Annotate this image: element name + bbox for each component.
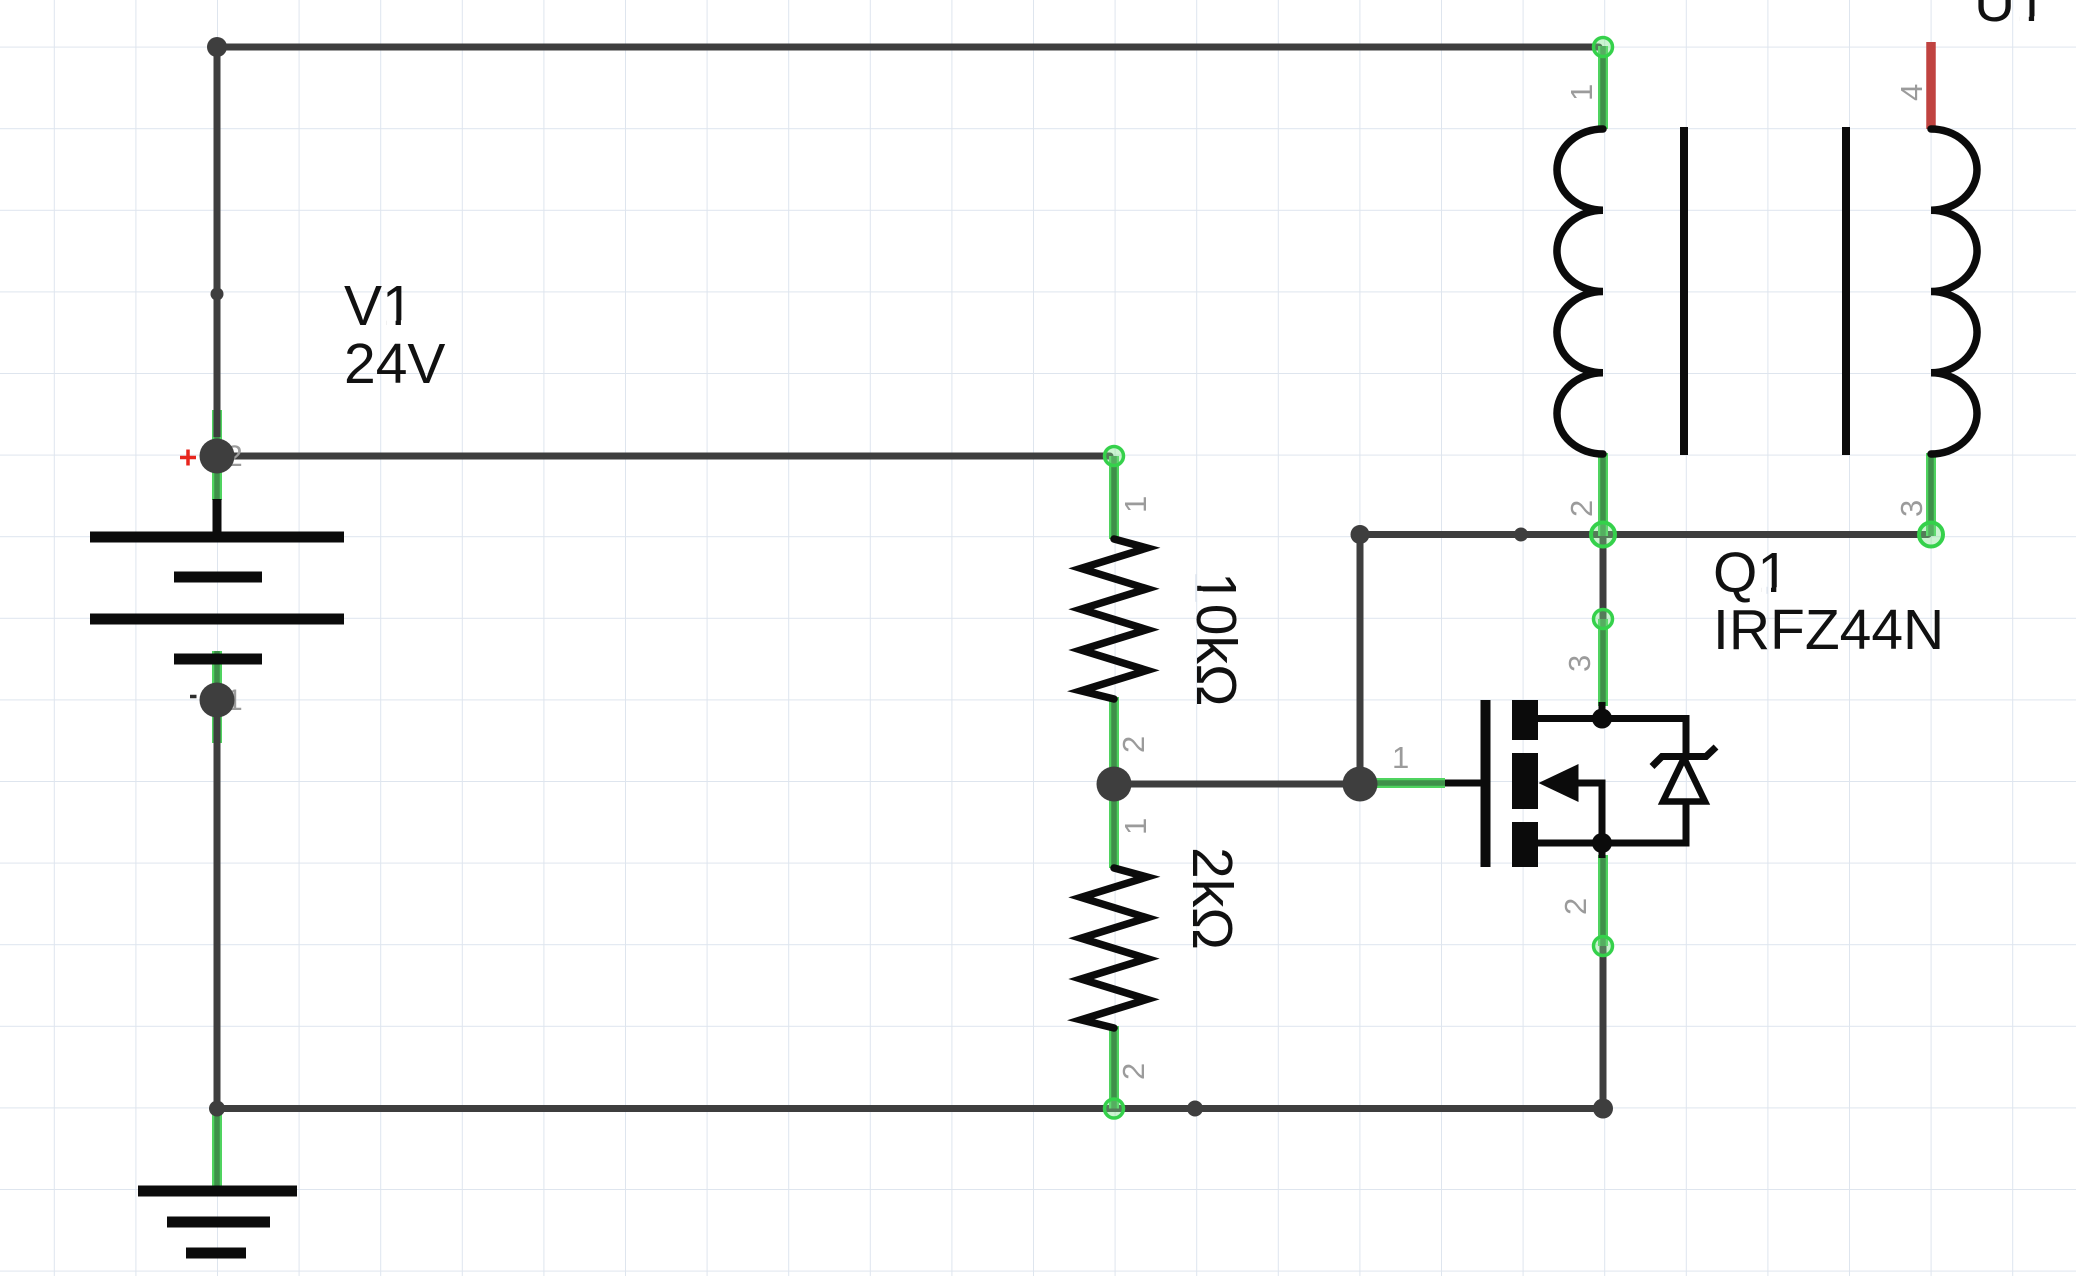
svg-text:1: 1 bbox=[1564, 84, 1599, 101]
transformer T1 pin 4 stub (unconnected, red) bbox=[1926, 42, 1936, 129]
svg-text:2: 2 bbox=[1558, 898, 1593, 915]
transformer T1 core bar left bbox=[1680, 127, 1688, 455]
Q1 channel segment top bbox=[1512, 700, 1538, 740]
resistor R2 zigzag body bbox=[1081, 868, 1147, 1028]
resistor R2 pin 1 stub bbox=[1109, 784, 1119, 868]
battery V1 plate short upper bbox=[174, 572, 262, 583]
Q1 body diode triangle bbox=[1663, 758, 1705, 802]
transformer T1 core bar right bbox=[1842, 127, 1850, 455]
svg-text:1: 1 bbox=[1118, 818, 1153, 835]
wire: top net from battery + column to transformer T1 pin 1 bbox=[217, 47, 1599, 437]
wire: battery - node down to bottom ground net bbox=[214, 716, 221, 1109]
battery V1 top lead bbox=[213, 499, 222, 538]
MOSFET Q1 drain pin 3 stub bbox=[1598, 619, 1608, 706]
node: battery + terminal bbox=[200, 439, 235, 474]
svg-text:10kΩ: 10kΩ bbox=[1184, 572, 1248, 707]
wire: battery + node to resistor R1 pin 1 bbox=[217, 453, 1110, 460]
node: gate node bbox=[1343, 767, 1378, 802]
ground symbol line 1 bbox=[138, 1186, 297, 1197]
connection ring: R2 pin 2 bbox=[1105, 1099, 1124, 1118]
connection ring: T1 pin 2 bbox=[1591, 523, 1615, 547]
Q1 source lead bbox=[1538, 843, 1602, 858]
junction: top-left corner bbox=[207, 37, 227, 57]
serif mask V1 bbox=[386, 320, 395, 326]
svg-text:2: 2 bbox=[1116, 736, 1151, 753]
svg-text:IRFZ44N: IRFZ44N bbox=[1713, 598, 1944, 662]
svg-text:24V: 24V bbox=[344, 332, 445, 396]
resistor R2 pin 2 stub bbox=[1109, 1026, 1119, 1109]
transformer T1 pin 3 stub bbox=[1926, 453, 1936, 536]
svg-text:1: 1 bbox=[1392, 740, 1409, 775]
Q1 body arrow bbox=[1539, 764, 1579, 802]
resistor R1 zigzag body bbox=[1081, 539, 1147, 699]
grid line restore near 10k label bbox=[1195, 574, 1197, 602]
svg-text:4: 4 bbox=[1894, 84, 1929, 101]
Q1 body diode bottom link bbox=[1602, 802, 1686, 844]
battery - polarity mark bbox=[190, 695, 197, 699]
transformer T1 pin 1 stub bbox=[1598, 46, 1608, 129]
battery V1 pin 2 stub (above + node) bbox=[212, 410, 222, 456]
Q1 gate lead bbox=[1445, 780, 1481, 787]
junction: left wire segment joint bbox=[211, 288, 224, 301]
transformer T1 pin 2 stub bbox=[1598, 453, 1608, 536]
Q1 body connection line bbox=[1565, 783, 1602, 843]
Q1 channel segment bottom bbox=[1512, 822, 1538, 867]
Q1 drain internal junction dot bbox=[1592, 709, 1612, 729]
serif mask Q1 bbox=[1762, 587, 1771, 593]
battery V1 plate long lower bbox=[90, 614, 344, 625]
serif mask U1 bbox=[2019, 16, 2028, 22]
svg-text:1: 1 bbox=[1118, 496, 1153, 513]
wire: gate node up and right to transformer secondary pins bbox=[1360, 535, 1928, 785]
battery V1 plate short bottom bbox=[174, 654, 262, 665]
junction: wire joint on transformer net bbox=[1514, 528, 1528, 542]
wire: transformer pin 2 junction down to Q1 drain bbox=[1600, 535, 1607, 622]
connection ring: T1 pin 3 bbox=[1919, 523, 1943, 547]
transformer T1 primary coil bbox=[1557, 129, 1603, 454]
Q1 gate bar bbox=[1481, 700, 1491, 867]
Q1 channel segment middle bbox=[1512, 753, 1538, 809]
battery V1 plate long top bbox=[90, 532, 344, 543]
connection ring: T1 pin 1 bbox=[1594, 38, 1613, 57]
ground pin stub bbox=[212, 1109, 222, 1191]
battery + polarity mark bbox=[180, 450, 196, 466]
connection ring: Q1 source bbox=[1594, 937, 1613, 956]
serif mask 10k bbox=[1196, 575, 1202, 586]
Q1 body diode top link bbox=[1602, 719, 1686, 757]
node: divider node R1/R2 bbox=[1097, 767, 1132, 802]
transformer T1 secondary coil bbox=[1931, 129, 1977, 454]
wire over battery pin 1 stub bbox=[214, 716, 221, 743]
battery V1 pin 2 stub (below + node to plate) bbox=[212, 456, 222, 500]
svg-text:2: 2 bbox=[1564, 500, 1599, 517]
svg-text:3: 3 bbox=[1894, 500, 1929, 517]
node: battery - terminal bbox=[200, 683, 235, 718]
svg-text:3: 3 bbox=[1562, 655, 1597, 672]
Q1 drain lead bbox=[1538, 702, 1602, 719]
ground symbol line 2 bbox=[167, 1217, 270, 1228]
resistor R1 pin 2 stub bbox=[1109, 697, 1119, 784]
grid line restore near Q1 label bbox=[1766, 587, 1768, 594]
ground symbol line 3 bbox=[186, 1248, 246, 1259]
battery V1 pin 1 stub (below bottom plate to - node and wire) bbox=[212, 651, 222, 743]
wire: Q1 source down then left along bottom net to battery - bbox=[217, 944, 1603, 1109]
svg-text:2: 2 bbox=[1116, 1063, 1151, 1080]
MOSFET Q1 gate pin 1 stub bbox=[1360, 778, 1445, 788]
svg-text:2kΩ: 2kΩ bbox=[1180, 847, 1244, 950]
svg-text:V1: V1 bbox=[344, 274, 414, 338]
junction: bottom-left ground tee bbox=[209, 1101, 225, 1117]
resistor R1 pin 1 stub bbox=[1109, 456, 1119, 539]
connection ring: Q1 drain bbox=[1594, 610, 1613, 629]
junction: bottom net joint bbox=[1187, 1101, 1203, 1117]
Q1 source internal junction dot bbox=[1592, 833, 1612, 853]
wire: divider node to MOSFET gate node bbox=[1114, 781, 1360, 788]
wire over battery pin 2 stub bbox=[214, 410, 221, 437]
svg-text:Q1: Q1 bbox=[1713, 541, 1789, 605]
connection ring: R1 pin 1 bbox=[1105, 447, 1124, 466]
MOSFET Q1 source pin 2 stub bbox=[1598, 855, 1608, 946]
junction: corner above gate node bbox=[1351, 525, 1370, 544]
junction: bottom-right corner bbox=[1593, 1099, 1613, 1119]
Q1 body diode zener cathode bar bbox=[1652, 747, 1716, 767]
